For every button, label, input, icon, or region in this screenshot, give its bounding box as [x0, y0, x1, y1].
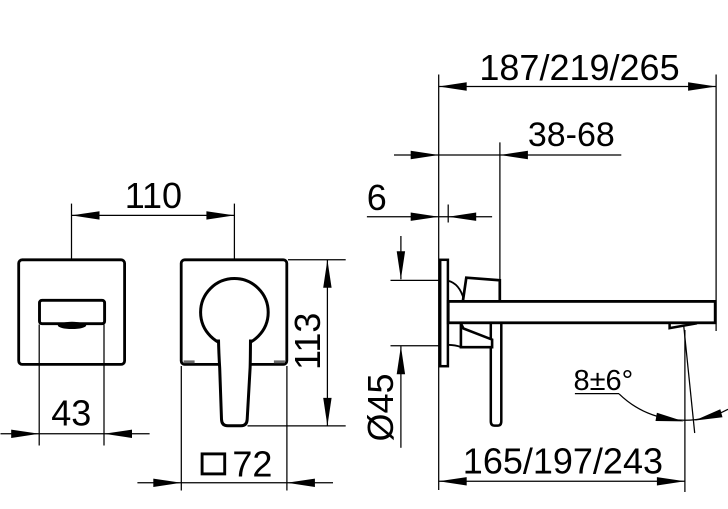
lever knob circle: [201, 279, 269, 347]
aerator wedge: [670, 322, 697, 328]
extension lines diameter 45: [391, 279, 442, 281]
svg-text:187/219/265: 187/219/265: [479, 47, 679, 88]
spout side view: [448, 301, 715, 322]
extension line spout tip: [715, 75, 717, 332]
arrow 72 right: [287, 479, 315, 487]
extension line 38-68 right: [499, 142, 501, 281]
dimension line diameter 45: [400, 236, 402, 279]
arrow 110 right: [206, 211, 234, 219]
escutcheon curve top: [448, 281, 464, 300]
arrow angle right: [694, 409, 722, 420]
arrow 6 left: [411, 213, 439, 221]
lever base side view: [461, 324, 492, 348]
extension line 6 right: [447, 205, 449, 223]
cartridge housing side view: [463, 278, 500, 303]
fixing tick left: [184, 360, 195, 363]
svg-text:72: 72: [232, 443, 272, 484]
arrow 38-68 left: [411, 151, 439, 159]
svg-text:110: 110: [125, 175, 182, 216]
arrow 113 bottom: [323, 398, 331, 426]
arrow 187 left: [439, 82, 467, 90]
fixing tick right: [274, 360, 285, 363]
wall extension line (left reference): [438, 75, 440, 491]
dimension line 38-68: [394, 154, 621, 156]
svg-text:Ø45: Ø45: [360, 373, 401, 441]
svg-text:43: 43: [51, 393, 91, 434]
square escutcheon middle (mixer front view): [181, 260, 287, 365]
svg-text:165/197/243: 165/197/243: [463, 441, 663, 482]
centerline middle square: [233, 204, 235, 280]
square escutcheon left (spout plate front view): [19, 260, 125, 365]
extension line 113 top: [288, 259, 346, 261]
dimension line 6: [367, 216, 492, 218]
arrow 165 left: [439, 477, 467, 485]
angle dimension arc: [619, 394, 728, 420]
aerator lens: [58, 322, 86, 329]
arrow 113 top: [323, 260, 331, 288]
angle leader underline 8deg: [575, 393, 619, 395]
lever handle front view: [219, 340, 251, 426]
square symbol of 72: [202, 454, 225, 474]
arrow 6 right: [448, 213, 476, 221]
arrow 187 right: [688, 82, 716, 90]
dimension line 165/197/243: [439, 480, 685, 482]
dimension line 43: [1, 433, 150, 435]
svg-text:8±6°: 8±6°: [574, 365, 634, 397]
svg-text:38-68: 38-68: [528, 116, 615, 154]
arrow 43 left: [11, 430, 39, 438]
extension lines 72: [180, 366, 182, 491]
spout front rectangle: [40, 300, 105, 323]
svg-text:113: 113: [287, 313, 328, 370]
arrow diameter45 bottom: [397, 346, 405, 374]
arrow 110 left: [72, 211, 100, 219]
arrow 43 right: [104, 430, 132, 438]
svg-text:6: 6: [367, 177, 387, 218]
extension line 113 bottom: [248, 425, 346, 427]
extension lines 43: [38, 325, 40, 446]
arrow 165 right: [657, 477, 685, 485]
dimension line 110: [72, 214, 235, 216]
dimension line 72: [137, 482, 333, 484]
arrow diameter45 top: [397, 251, 405, 279]
centerline left square: [71, 204, 73, 300]
extension line 165 right (aerator axis vertical): [684, 330, 686, 492]
dimension line 187/219/265: [439, 86, 716, 88]
arrow 38-68 right: [500, 151, 528, 159]
wall plate side view: [440, 260, 448, 366]
lever grip side view: [491, 322, 502, 426]
escutcheon curve bottom: [448, 345, 461, 347]
arrow angle left: [656, 413, 684, 422]
arrow 72 left: [153, 479, 181, 487]
aerator axis slanted line: [684, 327, 695, 434]
dimension line 113: [326, 260, 328, 426]
